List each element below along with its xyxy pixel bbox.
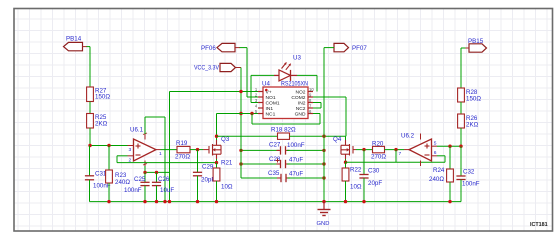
port PB15 bbox=[469, 44, 487, 52]
wire Q3 source down bbox=[216, 159, 218, 163]
svg-text:10Ω: 10Ω bbox=[350, 184, 362, 191]
capacitor C30 bbox=[359, 174, 368, 176]
wire PF07 left bbox=[324, 47, 334, 49]
junction rail C29 bbox=[196, 200, 199, 203]
svg-text:U3: U3 bbox=[293, 54, 301, 61]
wire U6.1 vplus up bbox=[144, 117, 146, 134]
svg-text:U4: U4 bbox=[262, 81, 270, 88]
svg-text:U6.1: U6.1 bbox=[130, 127, 144, 134]
junction C27 right bbox=[322, 149, 325, 152]
wire R27-R25 bbox=[89, 102, 91, 114]
svg-text:47uF: 47uF bbox=[289, 171, 303, 178]
wire Q4 source down bbox=[345, 159, 347, 162]
U6.2 V- stub bbox=[420, 161, 422, 167]
svg-text:GND: GND bbox=[317, 221, 330, 227]
U6.1 V+ pin stub bbox=[144, 134, 146, 140]
wire PB14 to R27 horiz bbox=[87, 46, 91, 48]
svg-text:C27: C27 bbox=[269, 142, 281, 149]
wire C30 to rail bbox=[363, 178, 365, 202]
svg-text:100nF: 100nF bbox=[287, 142, 305, 149]
resistor R20 bbox=[373, 146, 385, 152]
junction feedback top bbox=[394, 148, 397, 151]
wire PF06 down to NO1 bbox=[246, 48, 248, 97]
wire R23 column top bbox=[108, 146, 110, 171]
wire R26 down bbox=[460, 128, 462, 146]
pin 2 stub U6.1 bbox=[128, 155, 134, 157]
wire C29 to rail bbox=[197, 176, 199, 202]
wire C30 column bbox=[363, 150, 365, 175]
wire R25 down to node bbox=[89, 128, 91, 146]
wire R22 column bbox=[345, 162, 347, 168]
svg-text:150Ω: 150Ω bbox=[95, 94, 110, 101]
svg-text:R24: R24 bbox=[433, 167, 445, 174]
junction C25 top bbox=[143, 171, 146, 174]
junction rail R21 bbox=[215, 200, 218, 203]
resistor R23 bbox=[106, 170, 113, 183]
wire C31 to rail bbox=[89, 180, 91, 202]
junction rail C25 bbox=[143, 200, 146, 203]
svg-text:7: 7 bbox=[399, 151, 402, 157]
wire GND pin down bbox=[319, 114, 321, 125]
pin 3 stub U6.1 bbox=[128, 145, 134, 147]
svg-text:Q3: Q3 bbox=[221, 136, 230, 143]
junction PB14 node bbox=[88, 144, 91, 147]
wire C28 row right bbox=[287, 163, 324, 165]
port PF07 bbox=[334, 43, 349, 51]
op-amp U6.2 bbox=[409, 139, 432, 161]
wire long vertical x169.5 bbox=[169, 92, 171, 202]
junction rail C30 bbox=[362, 200, 365, 203]
wire Q3 gate lead bbox=[203, 149, 209, 151]
wire R24 to rail bbox=[449, 182, 451, 202]
svg-text:R23: R23 bbox=[115, 172, 127, 179]
pin wire PB15 bbox=[465, 47, 469, 49]
junction C35 right bbox=[322, 176, 325, 179]
wire NO1 to PF06 col bbox=[247, 96, 258, 98]
svg-text:47uF: 47uF bbox=[289, 157, 303, 164]
wire PB14 down to R27 bbox=[89, 47, 91, 88]
wire PB15 left bbox=[461, 47, 466, 49]
wire C32 to rail bbox=[460, 180, 462, 202]
resistor R21 bbox=[213, 168, 220, 181]
wire LED anode row bbox=[251, 74, 274, 76]
svg-text:PF06: PF06 bbox=[201, 45, 216, 52]
resistor R19 bbox=[177, 146, 190, 152]
grid bbox=[17, 8, 19, 231]
LED U3 bbox=[274, 74, 279, 76]
junction pin5 x461 bbox=[459, 145, 462, 148]
junction C28 left bbox=[239, 162, 242, 165]
wire x117 down bbox=[116, 156, 118, 163]
wire R28-R26 bbox=[460, 102, 462, 114]
junction R24 top bbox=[448, 145, 451, 148]
svg-text:R22: R22 bbox=[350, 167, 362, 174]
svg-text:2KΩ: 2KΩ bbox=[95, 121, 108, 128]
resistor R18 bbox=[278, 133, 290, 139]
wire COM1 riser bbox=[250, 75, 252, 102]
svg-text:PB15: PB15 bbox=[468, 38, 484, 45]
U6.1 V+ tick bbox=[143, 133, 147, 135]
wire Q4 drain riser bbox=[345, 136, 347, 141]
pin 7 stub U6.2 bbox=[404, 149, 409, 151]
IC U4 RS2105XN bbox=[263, 87, 308, 119]
svg-text:C25: C25 bbox=[134, 176, 146, 183]
wire node down to C31 bbox=[89, 146, 91, 176]
svg-text:240Ω: 240Ω bbox=[115, 179, 130, 186]
capacitor C32 bbox=[456, 175, 465, 177]
wire C25 column bbox=[144, 172, 146, 182]
svg-text:270Ω: 270Ω bbox=[175, 154, 190, 161]
U6.1 V- tick bbox=[143, 164, 147, 166]
junction rail x324 bbox=[322, 200, 325, 203]
wire R19 to Q3 gate bbox=[190, 149, 203, 151]
wire V+ row to IC bbox=[170, 91, 259, 93]
wire IN2 right bbox=[313, 102, 321, 104]
port VCC_3.3V bbox=[220, 63, 236, 71]
svg-text:5: 5 bbox=[434, 140, 437, 146]
svg-text:U6.2: U6.2 bbox=[401, 133, 415, 140]
wire R21 to rail bbox=[216, 181, 218, 202]
wire pin5 row bbox=[437, 145, 461, 147]
wire C32 column bbox=[460, 146, 462, 176]
wire C26 column bbox=[156, 172, 158, 182]
svg-text:NO2: NO2 bbox=[295, 90, 305, 96]
wire supply row y117 bbox=[145, 116, 165, 118]
wire PF06 right bbox=[240, 47, 248, 49]
pin wire PF06 bbox=[235, 47, 240, 49]
transistor Q4 bbox=[352, 146, 354, 154]
svg-text:R21: R21 bbox=[221, 160, 233, 167]
svg-text:10Ω: 10Ω bbox=[221, 184, 233, 191]
junction R23 top bbox=[107, 144, 110, 147]
wire R20 to U6.2 out bbox=[385, 149, 405, 151]
wire C28 row left bbox=[241, 163, 279, 165]
wire U6.1 out to R19 bbox=[161, 149, 178, 151]
ground GND bbox=[323, 202, 325, 210]
wire PF07 down x324 bbox=[323, 48, 325, 202]
junction rail C26 bbox=[155, 200, 158, 203]
svg-text:C35: C35 bbox=[268, 170, 280, 177]
wire U6.1 vminus down bbox=[144, 166, 146, 172]
pin 6 stub U6.2 bbox=[432, 155, 438, 157]
wire NC1 row left bbox=[217, 113, 259, 115]
wire C25 to rail bbox=[144, 186, 146, 202]
pin wire PB14 bbox=[83, 46, 88, 48]
capacitor C28 bbox=[280, 160, 282, 168]
wire C26 to rail bbox=[156, 186, 158, 202]
wire C29 column bbox=[197, 150, 199, 173]
svg-text:100nF: 100nF bbox=[462, 181, 480, 188]
svg-text:R19: R19 bbox=[176, 140, 188, 147]
wire C35 row left bbox=[241, 177, 280, 179]
capacitor C31 bbox=[85, 175, 94, 177]
pin wire VCC bbox=[236, 67, 242, 69]
svg-text:NC1: NC1 bbox=[266, 112, 276, 118]
svg-text:R20: R20 bbox=[372, 140, 384, 147]
svg-text:RS2105XN: RS2105XN bbox=[281, 81, 308, 88]
wire pin2 to x117 bbox=[117, 155, 128, 157]
resistor R26 bbox=[458, 114, 465, 128]
junction x241 NC1 row bbox=[239, 112, 242, 115]
svg-text:100nF: 100nF bbox=[124, 187, 142, 194]
wire LED cathode row bbox=[297, 74, 317, 76]
svg-text:10uF: 10uF bbox=[160, 187, 174, 194]
wire Q4 gate to R20 bbox=[356, 149, 373, 151]
junction Q3 drain R18 row bbox=[215, 135, 218, 138]
svg-text:1: 1 bbox=[159, 151, 162, 157]
op-amp U6.1 bbox=[134, 139, 157, 161]
junction Q4 source bbox=[344, 161, 347, 164]
wire source/feedback row bbox=[346, 161, 446, 163]
wire COM2 down to Q4 bbox=[345, 97, 347, 136]
junction rail R23 bbox=[107, 200, 110, 203]
wire under-IC row bbox=[252, 123, 320, 125]
svg-text:PB14: PB14 bbox=[66, 36, 82, 43]
wire R21 column top bbox=[216, 163, 218, 168]
junction NC1 x252 bbox=[250, 112, 253, 115]
wire R18 row left bbox=[217, 135, 278, 137]
svg-text:270Ω: 270Ω bbox=[371, 154, 386, 161]
wire ground rail bbox=[90, 201, 462, 203]
wire pin6 to feedback bbox=[437, 155, 445, 157]
svg-text:PF07: PF07 bbox=[352, 45, 367, 52]
svg-text:150Ω: 150Ω bbox=[466, 96, 481, 103]
resistor R22 bbox=[342, 168, 349, 181]
wire feedback row y162.6 bbox=[117, 162, 217, 164]
svg-text:VCC_3.3V: VCC_3.3V bbox=[194, 65, 220, 72]
svg-text:C28: C28 bbox=[269, 156, 281, 163]
junction rail x165 bbox=[163, 200, 166, 203]
junction rail R22 bbox=[344, 200, 347, 203]
wire PB15 down bbox=[460, 48, 462, 88]
junction Q3 source bbox=[215, 161, 218, 164]
capacitor C25 bbox=[140, 181, 149, 183]
junction R18 row x324 bbox=[322, 135, 325, 138]
junction C28 right bbox=[322, 162, 325, 165]
U6.1 V- pin stub bbox=[144, 161, 146, 167]
resistor R25 bbox=[87, 114, 94, 129]
svg-text:V+: V+ bbox=[266, 90, 272, 96]
svg-text:20pF: 20pF bbox=[368, 180, 382, 187]
wire NC1 riser bbox=[251, 114, 253, 125]
wire C35 row right bbox=[288, 177, 325, 179]
svg-text:6: 6 bbox=[434, 150, 437, 156]
wire R23 to rail bbox=[108, 183, 110, 202]
wire COM1 to LED col bbox=[251, 102, 258, 104]
svg-text:R18 82Ω: R18 82Ω bbox=[271, 127, 296, 134]
wire node row to opamp + bbox=[90, 145, 134, 147]
junction rail R24 bbox=[448, 200, 451, 203]
svg-text:C30: C30 bbox=[368, 168, 380, 175]
pin 1 stub U6.1 bbox=[156, 149, 161, 151]
svg-text:IN2: IN2 bbox=[298, 101, 306, 107]
junction C27 left bbox=[239, 149, 242, 152]
wire feedback down x396 bbox=[395, 150, 397, 163]
svg-text:3: 3 bbox=[129, 147, 132, 153]
wire NC2 right bbox=[313, 107, 321, 109]
svg-text:240Ω: 240Ω bbox=[429, 176, 444, 183]
resistor R24 bbox=[447, 169, 454, 182]
wire R18 row right bbox=[290, 135, 346, 137]
svg-text:NC2: NC2 bbox=[296, 106, 306, 112]
svg-text:ICT181: ICT181 bbox=[530, 222, 548, 228]
wire LED to NO2 bbox=[316, 75, 318, 91]
port PB14 bbox=[64, 42, 83, 50]
junction VCC V+ row bbox=[239, 90, 242, 93]
svg-text:10: 10 bbox=[309, 87, 314, 92]
pin 5 stub U6.2 bbox=[432, 145, 438, 147]
wire R24 column bbox=[449, 146, 451, 169]
resistor R28 bbox=[458, 88, 465, 102]
wire vminus row bbox=[145, 171, 170, 173]
svg-text:100nF: 100nF bbox=[93, 183, 111, 190]
wire Q4 gate lead bbox=[353, 149, 356, 151]
svg-text:COM1: COM1 bbox=[266, 101, 280, 107]
wire IN2-NC2 tie bbox=[320, 103, 322, 109]
capacitor C35 bbox=[280, 174, 282, 182]
svg-text:IN1: IN1 bbox=[266, 106, 274, 112]
svg-text:C32: C32 bbox=[463, 169, 475, 176]
svg-text:C29: C29 bbox=[202, 164, 214, 171]
svg-text:GND: GND bbox=[295, 112, 306, 118]
resistor R27 bbox=[87, 87, 94, 102]
svg-text:2KΩ: 2KΩ bbox=[466, 122, 479, 129]
junction C26 top bbox=[155, 171, 158, 174]
port PF06 bbox=[217, 43, 235, 51]
capacitor C27 bbox=[280, 146, 282, 154]
wire feedback up x445 bbox=[444, 156, 446, 162]
junction C29 top bbox=[196, 148, 199, 151]
transistor Q3 bbox=[208, 146, 210, 154]
wire VCC down x241 bbox=[240, 68, 242, 179]
wire GND pin right bbox=[313, 113, 320, 115]
svg-text:Q4: Q4 bbox=[333, 136, 342, 143]
capacitor C26 bbox=[152, 181, 161, 183]
svg-text:NO1: NO1 bbox=[266, 95, 276, 101]
wire C27 row left bbox=[241, 149, 279, 151]
capacitor C29 bbox=[193, 171, 202, 173]
wire C27 row right bbox=[287, 149, 324, 151]
junction rail x169 bbox=[168, 200, 171, 203]
svg-text:COM2: COM2 bbox=[291, 95, 305, 101]
wire R22 to rail bbox=[345, 181, 347, 202]
wire long vertical x165 bbox=[164, 117, 166, 202]
svg-text:C26: C26 bbox=[158, 176, 170, 183]
U6.2 V+ stub bbox=[420, 134, 422, 140]
junction C30 top bbox=[362, 148, 365, 151]
wire Q3 drain up bbox=[216, 114, 218, 141]
wire COM2 right bbox=[313, 96, 346, 98]
